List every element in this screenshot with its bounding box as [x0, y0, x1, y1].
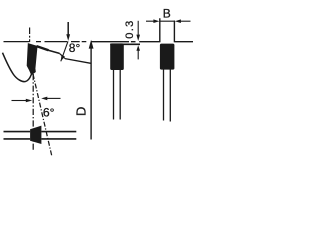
gullet curve — [3, 53, 32, 82]
step line (lower tooth level) — [110, 43, 140, 45]
svg-text:8°: 8° — [69, 41, 81, 55]
plate edge lines (top view) — [4, 132, 77, 139]
left tooth shank lines — [114, 70, 121, 120]
0.3 dimension upper (down) arrow — [136, 21, 140, 41]
horizontal center line (cutting circle level, dash-dot) — [4, 41, 87, 43]
carbide tip (side view, solid black) — [27, 44, 37, 75]
right view: blade top edge line — [91, 41, 193, 43]
svg-text:D: D — [73, 107, 88, 116]
right (B) tooth carbide (front view) — [160, 44, 175, 70]
left arrow pointing right at vertical line — [12, 99, 33, 103]
inclined 6 degree line (dash-dot) — [33, 74, 52, 155]
tooth top face line — [37, 46, 49, 50]
vertical center line of tooth (6 degree reference, dash-dot) — [32, 74, 34, 150]
B dimension right arrow — [175, 19, 191, 23]
B tooth shank lines — [164, 70, 171, 122]
leader line for 8 degree angle — [61, 41, 68, 61]
leader arrowhead on tooth face — [61, 55, 65, 62]
B dimension extension lines — [160, 18, 175, 42]
0.3 dimension lower (up) arrow — [136, 45, 140, 59]
svg-text:B: B — [163, 7, 171, 21]
svg-text:0.3: 0.3 — [124, 19, 136, 39]
svg-text:6°: 6° — [43, 105, 55, 119]
D dimension line with up arrow — [89, 40, 94, 140]
carbide tip (top view, solid trapezoid) — [30, 126, 41, 144]
vertical dashed radial line at tooth tip — [29, 28, 31, 43]
B dimension left arrow — [146, 19, 174, 23]
down arrow pointing to clearance-angle vertex — [66, 22, 70, 41]
left tooth carbide (front view) — [110, 43, 124, 70]
right arrow pointing left at inclined line — [41, 97, 60, 101]
